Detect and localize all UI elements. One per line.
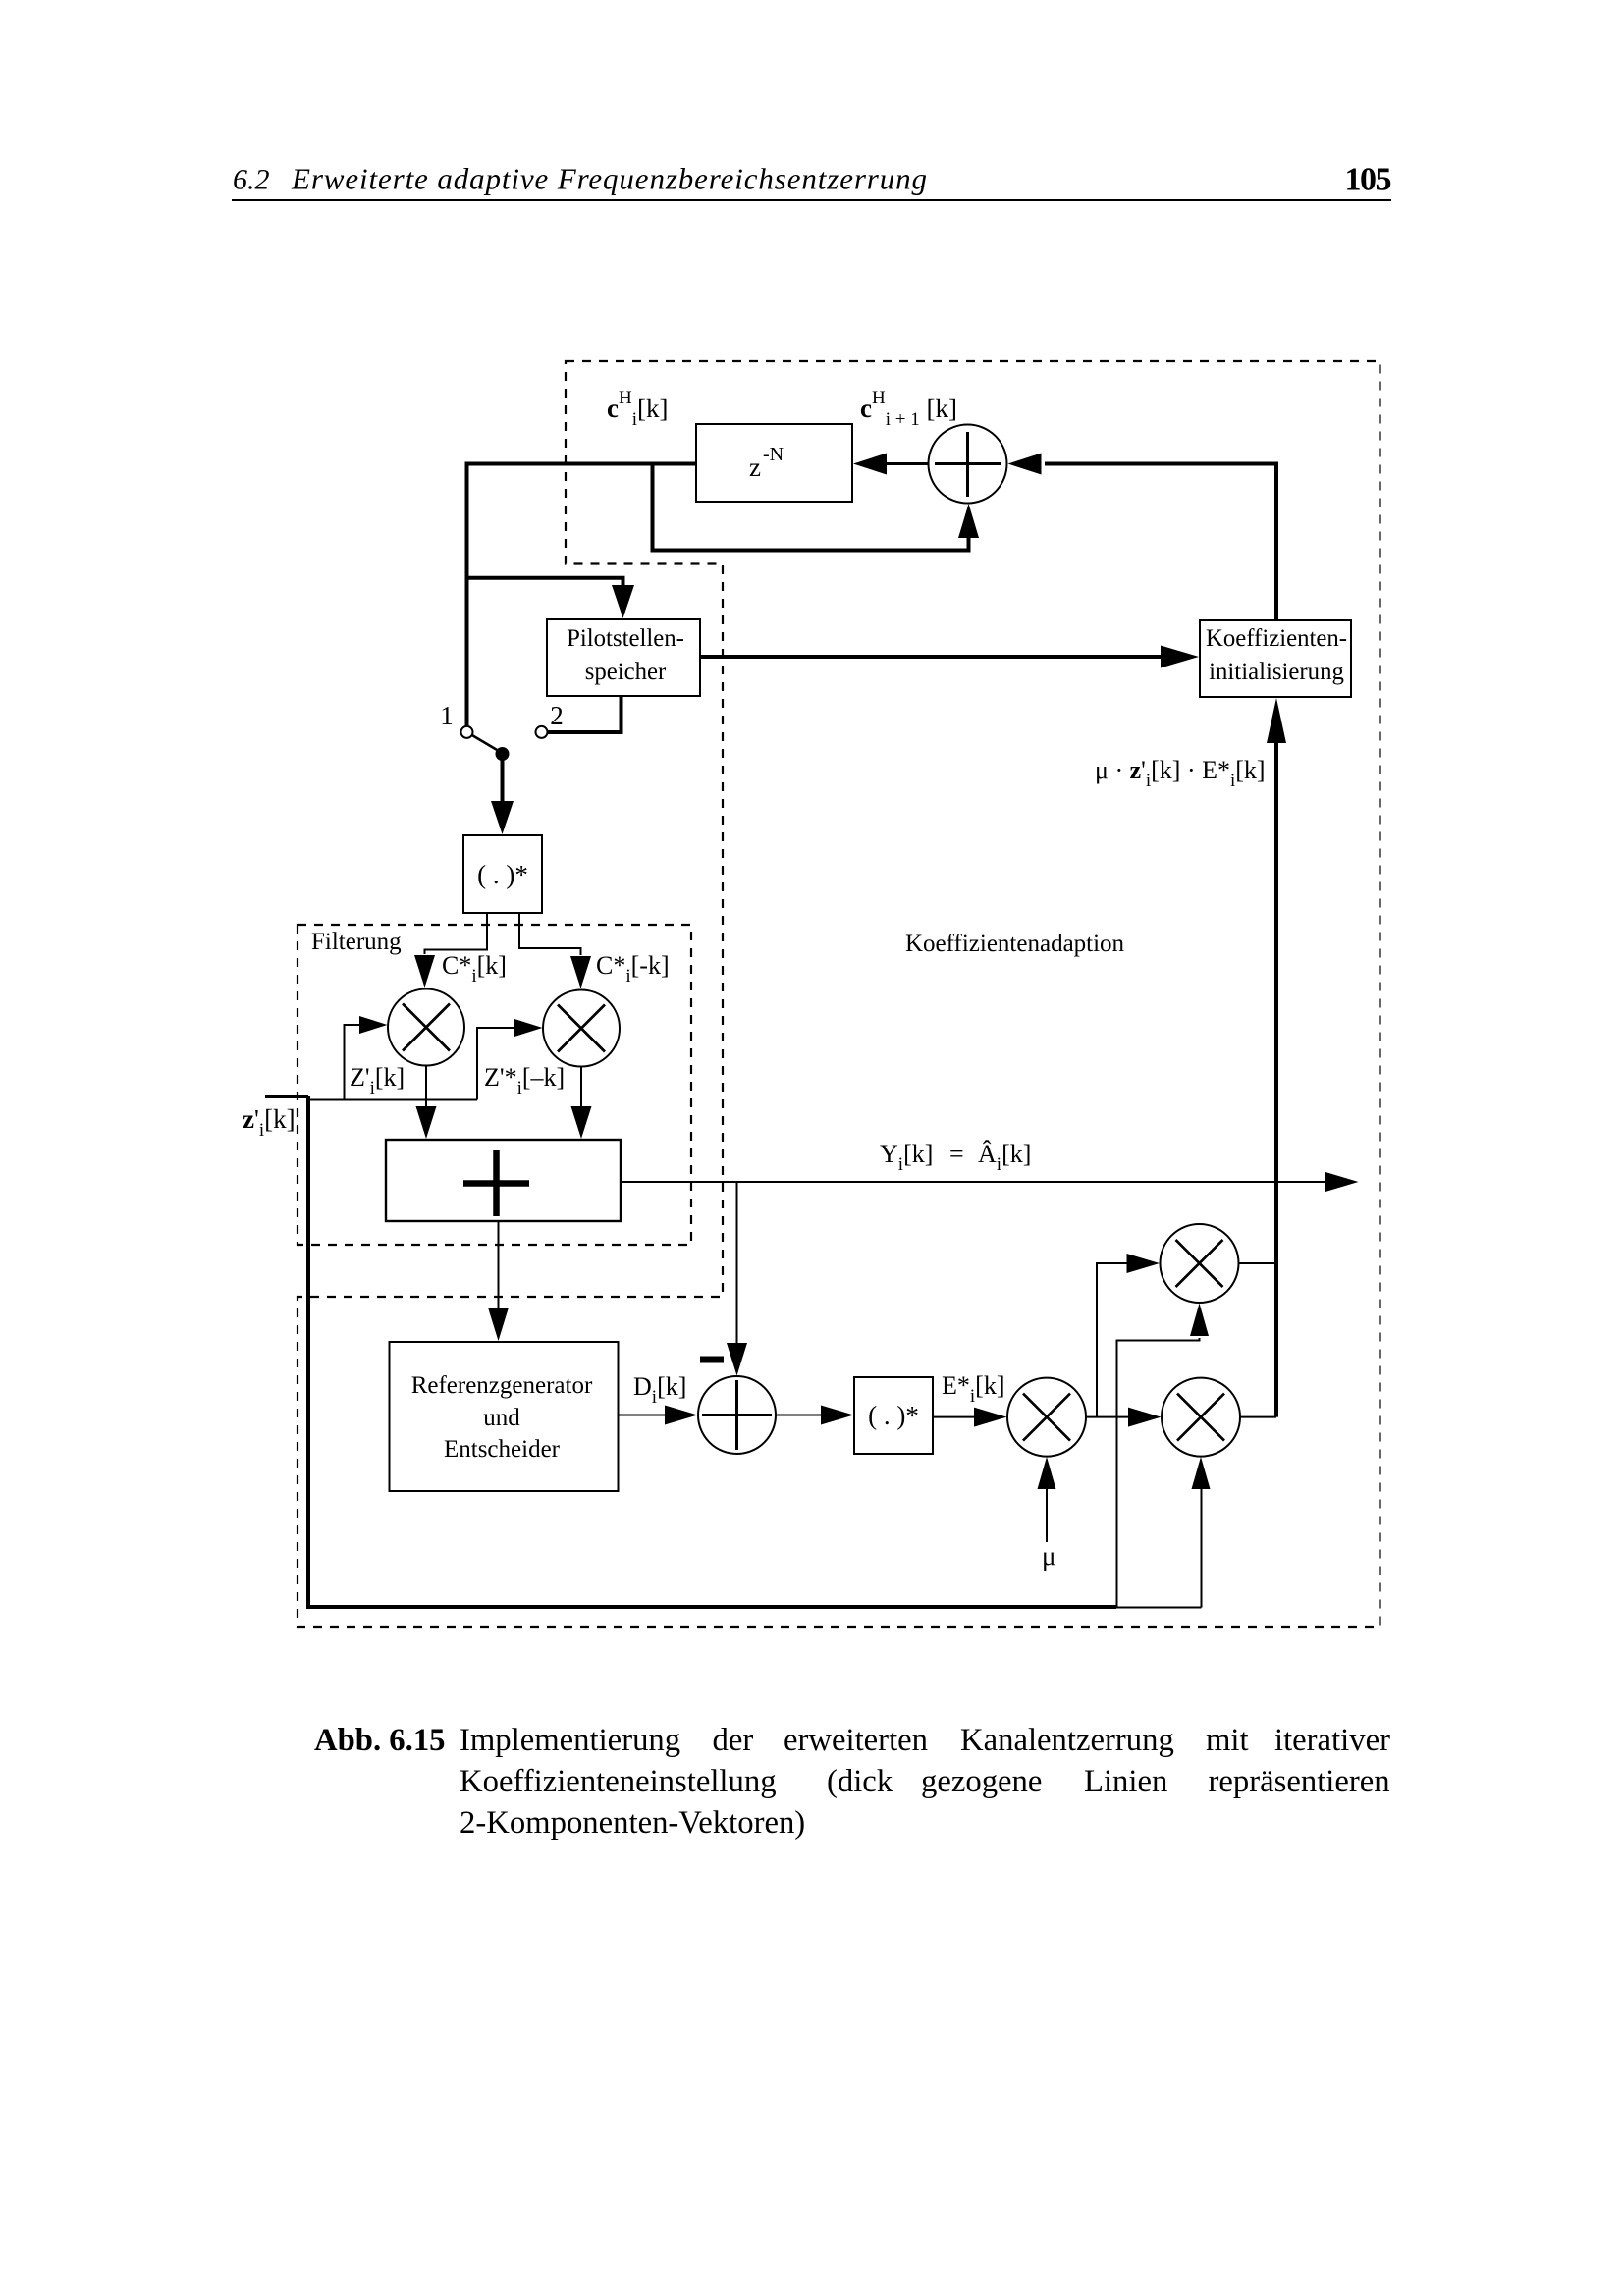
arrowhead into adder right bbox=[1008, 454, 1042, 475]
svg-text:Koeffizienteneinstellung: Koeffizienteneinstellung bbox=[460, 1764, 777, 1799]
svg-text:Referenzgenerator: Referenzgenerator bbox=[411, 1372, 593, 1399]
svg-text:der: der bbox=[713, 1723, 754, 1758]
svg-text:C*i[-k]: C*i[-k] bbox=[596, 951, 670, 987]
arrowhead into mult1 left bbox=[359, 1016, 388, 1034]
block Referenzgenerator und Entscheider bbox=[390, 1342, 619, 1491]
arrowhead mult1 into summer bbox=[416, 1106, 437, 1139]
svg-text:mit: mit bbox=[1206, 1723, 1249, 1758]
dashed box Koeffizientenadaption bbox=[298, 361, 1380, 1627]
wire mult3 output bbox=[1239, 1262, 1277, 1264]
block Pilotstellenspeicher bbox=[547, 619, 700, 696]
junction dot switch pivot bbox=[496, 747, 510, 761]
arrowhead Y output bbox=[1325, 1172, 1359, 1192]
svg-text:Filterung: Filterung bbox=[311, 929, 402, 955]
subtractor circle plus bbox=[698, 1376, 776, 1454]
wire mult2 output to summer bbox=[580, 1067, 582, 1108]
block conjugator 2 bbox=[854, 1377, 933, 1454]
arrowhead into z-N right bbox=[853, 454, 887, 475]
multiplier M3 bbox=[1161, 1224, 1239, 1303]
arrowhead mult2 into summer bbox=[571, 1106, 592, 1139]
header section title bbox=[233, 162, 927, 196]
arrowhead into Referenzgenerator top bbox=[488, 1308, 509, 1341]
wire update product up into Koeffizienteninitialisierung bbox=[1274, 739, 1278, 1417]
block Koeffizienteninitialisierung bbox=[1200, 620, 1351, 697]
svg-text:Z'i[k]: Z'i[k] bbox=[350, 1063, 405, 1098]
wire adder output to z-N bbox=[887, 462, 930, 465]
svg-text:Koeffizientenadaption: Koeffizientenadaption bbox=[905, 931, 1125, 957]
wire mult4 output bbox=[1240, 1416, 1276, 1418]
wire Koeffizienteninitialisierung top to adder bbox=[1045, 464, 1276, 621]
arrowhead into adder bottom bbox=[958, 504, 979, 538]
arrowhead into mult1 top bbox=[414, 955, 435, 988]
block summer bbox=[386, 1140, 621, 1221]
wire z bottom extension bbox=[1116, 1607, 1202, 1609]
multiplier ME bbox=[1007, 1378, 1086, 1457]
label minus sign bbox=[700, 1357, 724, 1363]
svg-text:μ: μ bbox=[1042, 1541, 1055, 1571]
svg-text:(dick: (dick bbox=[827, 1764, 893, 1799]
svg-text:2: 2 bbox=[550, 701, 564, 730]
svg-text:z: z bbox=[749, 453, 761, 482]
arrowhead into mult4 left bbox=[1128, 1408, 1162, 1427]
multiplier M1 bbox=[388, 989, 464, 1066]
wire conjugator 2 output to multiplier E bbox=[933, 1416, 975, 1418]
svg-text:initialisierung: initialisierung bbox=[1209, 659, 1344, 685]
svg-text:μ · z'i[k] · E*i[k]: μ · z'i[k] · E*i[k] bbox=[1095, 756, 1266, 791]
wire riser E to mult3 bbox=[1097, 1263, 1128, 1417]
wire trunk branch to Pilotstellenspeicher bbox=[467, 578, 623, 587]
wire conjugate to mult1 bbox=[425, 913, 488, 954]
arrowhead into multiplier E bbox=[974, 1408, 1007, 1427]
svg-text:gezogene: gezogene bbox=[921, 1764, 1042, 1799]
block conjugator 1 bbox=[463, 835, 542, 913]
arrowhead mu into multiplier E bbox=[1038, 1457, 1056, 1489]
wire z-N output to trunk bbox=[467, 464, 697, 728]
svg-text:1: 1 bbox=[440, 701, 454, 730]
svg-text:Entscheider: Entscheider bbox=[444, 1436, 561, 1463]
wire feedback c to adder bottom bbox=[653, 465, 969, 551]
svg-text:erweiterten: erweiterten bbox=[784, 1723, 928, 1758]
wire mult1 output to summer bbox=[425, 1066, 427, 1108]
svg-text:( . )*: ( . )* bbox=[868, 1401, 919, 1430]
wire Y branch down to subtractor bbox=[736, 1182, 738, 1344]
arrowhead into mult4 bottom bbox=[1192, 1457, 1211, 1489]
block z^-N bbox=[696, 424, 852, 502]
wire riser to mult2 bbox=[477, 1028, 515, 1100]
svg-text:Koeffizienten-: Koeffizienten- bbox=[1206, 625, 1347, 652]
wire z trunk down to bottom bbox=[306, 1096, 1116, 1609]
header rule bbox=[232, 199, 1391, 201]
svg-text:-N: -N bbox=[763, 444, 784, 465]
arrowhead into mult3 bottom bbox=[1190, 1304, 1209, 1337]
svg-text:2-Komponenten-Vektoren): 2-Komponenten-Vektoren) bbox=[460, 1805, 805, 1841]
wire summer output Y bbox=[621, 1181, 1325, 1183]
arrowhead into Pilotstellenspeicher top bbox=[612, 585, 634, 618]
wire D output to subtractor bbox=[619, 1415, 667, 1416]
arrowhead into conjugator box top bbox=[491, 801, 514, 834]
svg-text:speicher: speicher bbox=[585, 659, 667, 685]
svg-text:6.2: 6.2 bbox=[233, 164, 270, 196]
svg-text:Di[k]: Di[k] bbox=[633, 1372, 686, 1408]
wire summer bottom output bbox=[498, 1221, 500, 1308]
arrowhead into mult2 left bbox=[514, 1019, 543, 1037]
wire switch pivot down to conjugator bbox=[501, 754, 505, 803]
wire z riser to mult3 bottom bbox=[1117, 1338, 1200, 1607]
svg-text:iterativer: iterativer bbox=[1274, 1723, 1390, 1758]
arrowhead into mult3 left bbox=[1127, 1254, 1161, 1273]
wire Pilotstellenspeicher output to Koeffizienteninitialisierung bbox=[700, 655, 1163, 659]
wire z riser to mult4 bottom bbox=[1201, 1489, 1203, 1608]
svg-text:Erweiterte adaptive Frequenzbe: Erweiterte adaptive Frequenzbereichsentz… bbox=[291, 162, 927, 196]
wire switch lever bbox=[471, 735, 498, 751]
switch contact 2 bbox=[536, 726, 548, 738]
svg-text:C*i[k]: C*i[k] bbox=[442, 951, 507, 987]
svg-text:cHi + 1 [k]: cHi + 1 [k] bbox=[860, 388, 957, 430]
arrowhead into conjugator 2 bbox=[821, 1406, 854, 1425]
svg-text:repräsentieren: repräsentieren bbox=[1209, 1764, 1390, 1799]
svg-text:Abb. 6.15: Abb. 6.15 bbox=[314, 1723, 446, 1758]
arrowhead into Koeffizienteninitialisierung bottom bbox=[1267, 698, 1286, 743]
svg-text:Yi[k]=Âi[k]: Yi[k]=Âi[k] bbox=[880, 1140, 1031, 1175]
wire riser to mult1 bbox=[345, 1025, 362, 1100]
arrowhead into mult2 top bbox=[570, 956, 591, 988]
svg-text:E*i[k]: E*i[k] bbox=[942, 1371, 1005, 1407]
svg-text:Linien: Linien bbox=[1084, 1764, 1167, 1799]
svg-text:( . )*: ( . )* bbox=[477, 860, 528, 889]
svg-text:cHi[k]: cHi[k] bbox=[607, 388, 668, 430]
wire z input lead bbox=[265, 1095, 308, 1098]
adder U1 (circle plus) bbox=[929, 425, 1007, 504]
multiplier M2 bbox=[543, 990, 620, 1067]
wire switch contact 2 to Pilotstellenspeicher bottom bbox=[548, 697, 622, 733]
svg-text:und: und bbox=[483, 1405, 520, 1431]
arrowhead into subtractor top bbox=[727, 1343, 747, 1376]
multiplier M4 bbox=[1162, 1378, 1240, 1457]
svg-text:z'i[k]: z'i[k] bbox=[243, 1104, 296, 1141]
wire subtractor output to conjugator 2 bbox=[776, 1415, 822, 1416]
svg-text:Pilotstellen-: Pilotstellen- bbox=[567, 625, 684, 652]
svg-text:Kanalentzerrung: Kanalentzerrung bbox=[960, 1723, 1174, 1758]
svg-text:105: 105 bbox=[1345, 162, 1392, 198]
svg-text:Implementierung: Implementierung bbox=[460, 1723, 680, 1758]
arrowhead into Koeffizienteninitialisierung left bbox=[1161, 646, 1199, 668]
wire conjugate to mult2 bbox=[519, 913, 581, 955]
wire z distribution line bbox=[310, 1099, 477, 1101]
arrowhead into subtractor left bbox=[665, 1406, 698, 1425]
svg-text:Z'*i[–k]: Z'*i[–k] bbox=[484, 1063, 565, 1098]
wire mu input bbox=[1046, 1489, 1048, 1542]
switch contact 1 bbox=[461, 726, 473, 738]
dashed box Filterung bbox=[298, 925, 691, 1245]
wire multiplier E output to mult4 bbox=[1086, 1416, 1129, 1418]
caption Abb. 6.15 bbox=[314, 1723, 1390, 1841]
